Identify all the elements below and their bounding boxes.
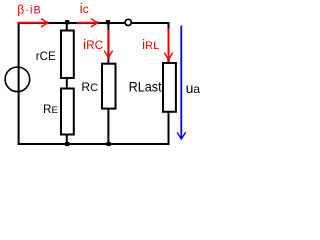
svg-text:rCE: rCE [36, 50, 56, 63]
wire: bottom rail [18, 143, 170, 145]
svg-text:ua: ua [186, 80, 201, 96]
current source U1 (controlled source beta*iB) [5, 67, 30, 92]
svg-text:RLast: RLast [129, 79, 162, 95]
svg-text:RC: RC [81, 80, 98, 94]
svg-text:iRC: iRC [83, 36, 104, 52]
svg-text:iRL: iRL [142, 36, 159, 52]
resistor RLast [163, 63, 176, 112]
current arrow beta*iB [18, 19, 49, 27]
wire: right rail top to RLast [168, 22, 170, 63]
voltage arrow ua [177, 26, 185, 140]
current arrow iRL [164, 29, 172, 61]
wire: stub rCE to RE [66, 78, 68, 89]
current arrow iRC [104, 30, 112, 59]
svg-text:RE: RE [43, 102, 58, 116]
resistor RC [102, 64, 116, 109]
resistor rCE [61, 31, 74, 79]
wire: stub top rail to RC [107, 23, 109, 64]
svg-text:β·iB: β·iB [17, 3, 42, 17]
junction dot D (bottom rail / RC branch) [107, 142, 111, 146]
junction dot B (top rail / RC branch) [106, 20, 110, 24]
wire: top rail [18, 22, 170, 24]
wire: right rail RLast to bottom rail [168, 112, 170, 145]
wire: left rail [18, 22, 20, 145]
junction dot C (bottom rail / RE branch) [65, 142, 69, 146]
wire: stub top rail to rCE [66, 23, 68, 31]
svg-text:ic: ic [80, 0, 89, 16]
junction dot A (top rail / rCE branch) [65, 20, 69, 24]
current arrow ic [77, 19, 99, 27]
wire: stub RC to bottom rail [107, 109, 109, 144]
resistor RE [61, 89, 74, 135]
node: open terminal circle on top rail [125, 19, 131, 25]
wire: stub RE to bottom rail [66, 135, 68, 145]
